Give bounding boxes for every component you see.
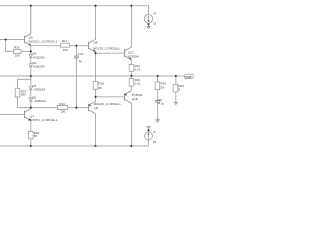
node mid wire / C16: [75, 107, 77, 109]
wire Q9 emitter to R12: [31, 45, 61, 47]
wire bottom rail: [0, 140, 149, 146]
svg-text:C16: C16: [78, 52, 84, 56]
wire Q8 collector to top rail: [95, 6, 97, 40]
wire R36 to Q9 emitter: [21, 50, 31, 52]
wire Q18 base: [96, 96, 125, 98]
wire Q17 emitter to R21: [130, 60, 132, 65]
wire R21 to OUT rail: [130, 71, 132, 76]
wire R73 bottom to mid wire: [17, 97, 19, 108]
svg-text:Q9: Q9: [29, 35, 33, 39]
wire OUT rail: [0, 75, 185, 77]
resistor R21 0.21: [129, 64, 134, 71]
svg-text:I6: I6: [153, 130, 156, 134]
svg-text:0.21: 0.21: [135, 67, 141, 71]
svg-text:KT819A: KT819A: [128, 55, 139, 59]
wire top rail: [0, 6, 149, 15]
node Q9 base / R36: [5, 38, 7, 40]
svg-text:1μ: 1μ: [79, 59, 83, 63]
node Q17 base tee: [94, 52, 96, 54]
resistor R12 100: [61, 43, 70, 47]
svg-text:BD139_CORDELL: BD139_CORDELL: [93, 46, 120, 50]
node Q18 base tee: [94, 96, 96, 98]
node OUT rail / R21-R22: [130, 75, 132, 77]
node top rail / Q8 C: [94, 5, 96, 7]
svg-text:15: 15: [153, 22, 157, 26]
svg-text:R12: R12: [62, 39, 68, 43]
wire OUT rail to R24: [175, 76, 177, 84]
svg-text:R36: R36: [14, 46, 20, 50]
diode D6 KD523A (upper): [29, 87, 33, 90]
node mid wire / D6 / Q7 C: [30, 107, 32, 109]
diode D4 KD523A (upper): [29, 54, 33, 57]
node bottom rail / Q18 C: [130, 145, 132, 147]
svg-text:100: 100: [15, 54, 20, 58]
node top rail / Q9 C: [30, 5, 32, 7]
svg-text:0.21: 0.21: [135, 82, 141, 86]
svg-text:R14: R14: [59, 102, 65, 106]
resistor R23 39: [155, 82, 160, 90]
wire OUT rail to R23: [157, 76, 159, 82]
svg-text:4.7μ: 4.7μ: [158, 102, 164, 106]
svg-text:100: 100: [60, 110, 65, 114]
ground below I4: [147, 25, 151, 27]
svg-text:15: 15: [153, 140, 157, 144]
svg-text:KD523A: KD523A: [34, 88, 45, 92]
svg-text:68: 68: [98, 86, 102, 90]
ground below R24: [174, 101, 177, 103]
wire R36 jog from Q9 base: [6, 40, 14, 52]
wire OUT rail to R22: [130, 76, 132, 78]
wire C16 top lead: [75, 46, 77, 56]
svg-text:Q6: Q6: [94, 106, 98, 110]
resistor R14 100: [57, 105, 67, 109]
svg-text:KD523A: KD523A: [33, 55, 44, 59]
wire R73 branch bracket: [18, 76, 31, 88]
node R36 / emitter chain: [30, 50, 32, 52]
resistor R19 68: [93, 82, 98, 90]
ground below C9: [156, 119, 160, 121]
wire R19 to Q6 emitter node: [95, 89, 97, 101]
current source I6 15: [145, 132, 153, 140]
wire R16 to bottom rail: [30, 139, 32, 146]
wire Q18 collector to bottom rail: [130, 103, 132, 146]
svg-text:BD140_CORDELL: BD140_CORDELL: [94, 102, 121, 106]
node OUT rail / R23: [157, 75, 159, 77]
transistor Q6 BD140_CORDELL (PNP, emitter up): [89, 101, 96, 113]
wire R22 to Q18 emitter: [130, 86, 132, 90]
svg-text:390: 390: [21, 93, 26, 97]
svg-text:OUT: OUT: [185, 75, 192, 79]
node Q9 emitter / R12 / C16: [75, 45, 77, 47]
net label OUT: [185, 74, 194, 78]
capacitor C16 1u: [74, 55, 79, 57]
svg-text:R19: R19: [98, 81, 104, 85]
svg-text:Q18: Q18: [132, 97, 138, 101]
svg-text:8: 8: [179, 88, 181, 92]
node bottom rail / Q6 C: [94, 145, 96, 147]
wire Q7 base drive: [0, 113, 25, 115]
wire Q17 base: [96, 52, 125, 54]
wire Q9 emitter vertical with D4 chain: [30, 46, 32, 55]
wire C16 bottom lead to mid wire: [75, 58, 77, 108]
diode D6 KD523A (lower): [29, 98, 33, 101]
wire D6 chain (OUT rail to mid wire): [30, 76, 32, 87]
resistor R16 56: [29, 131, 34, 138]
current source I4 15: [144, 14, 153, 23]
svg-text:2N5551_CORDELL: 2N5551_CORDELL: [28, 40, 58, 44]
wire Q6 collector to bottom rail: [95, 114, 97, 146]
wire Q8 emitter / R19 chain: [95, 52, 97, 82]
diode D4 KD523A (lower): [29, 64, 33, 67]
wire mid node (Q6 base wire): [18, 107, 89, 109]
node OUT rail / D4: [30, 75, 32, 77]
svg-text:KD523A: KD523A: [35, 99, 46, 103]
transistor Q8 BD139_CORDELL: [89, 39, 96, 51]
transistor Q9 2N5551_CORDELL: [25, 6, 31, 46]
wire Q7 emitter to R16: [30, 121, 32, 132]
wire R12 to Q8 base: [70, 45, 89, 47]
node bottom rail / R16: [30, 145, 32, 147]
svg-text:Q8: Q8: [93, 40, 97, 44]
resistor R73 390: [15, 88, 20, 97]
capacitor C9 4.7u: [155, 99, 160, 101]
svg-text:I4: I4: [154, 12, 157, 16]
transistor Q17 KT819A (output NPN): [125, 47, 132, 59]
node top rail / Q17 C: [130, 5, 132, 7]
svg-text:56: 56: [34, 134, 38, 138]
transistor Q18 KT818A (output PNP, emitter up): [125, 91, 132, 103]
svg-text:39: 39: [161, 86, 165, 90]
wire R24 to ground: [175, 92, 177, 102]
transistor Q7 2N5551_CORDELL: [25, 108, 31, 121]
ground above I6: [147, 126, 151, 128]
wire Q17 collector to top rail: [130, 6, 132, 48]
resistor R24 8: [173, 84, 178, 92]
svg-text:KD523A: KD523A: [33, 65, 44, 69]
svg-text:2N5551_CORDELL: 2N5551_CORDELL: [28, 118, 58, 122]
resistor R22 0.21: [129, 78, 134, 86]
node OUT rail / R24: [175, 75, 177, 77]
wire Q9 base drive: [0, 39, 25, 41]
wire C9 to ground: [157, 102, 159, 120]
resistor R36 100: [14, 49, 21, 53]
wire R23 to C9: [157, 90, 159, 101]
svg-text:100: 100: [63, 48, 68, 52]
